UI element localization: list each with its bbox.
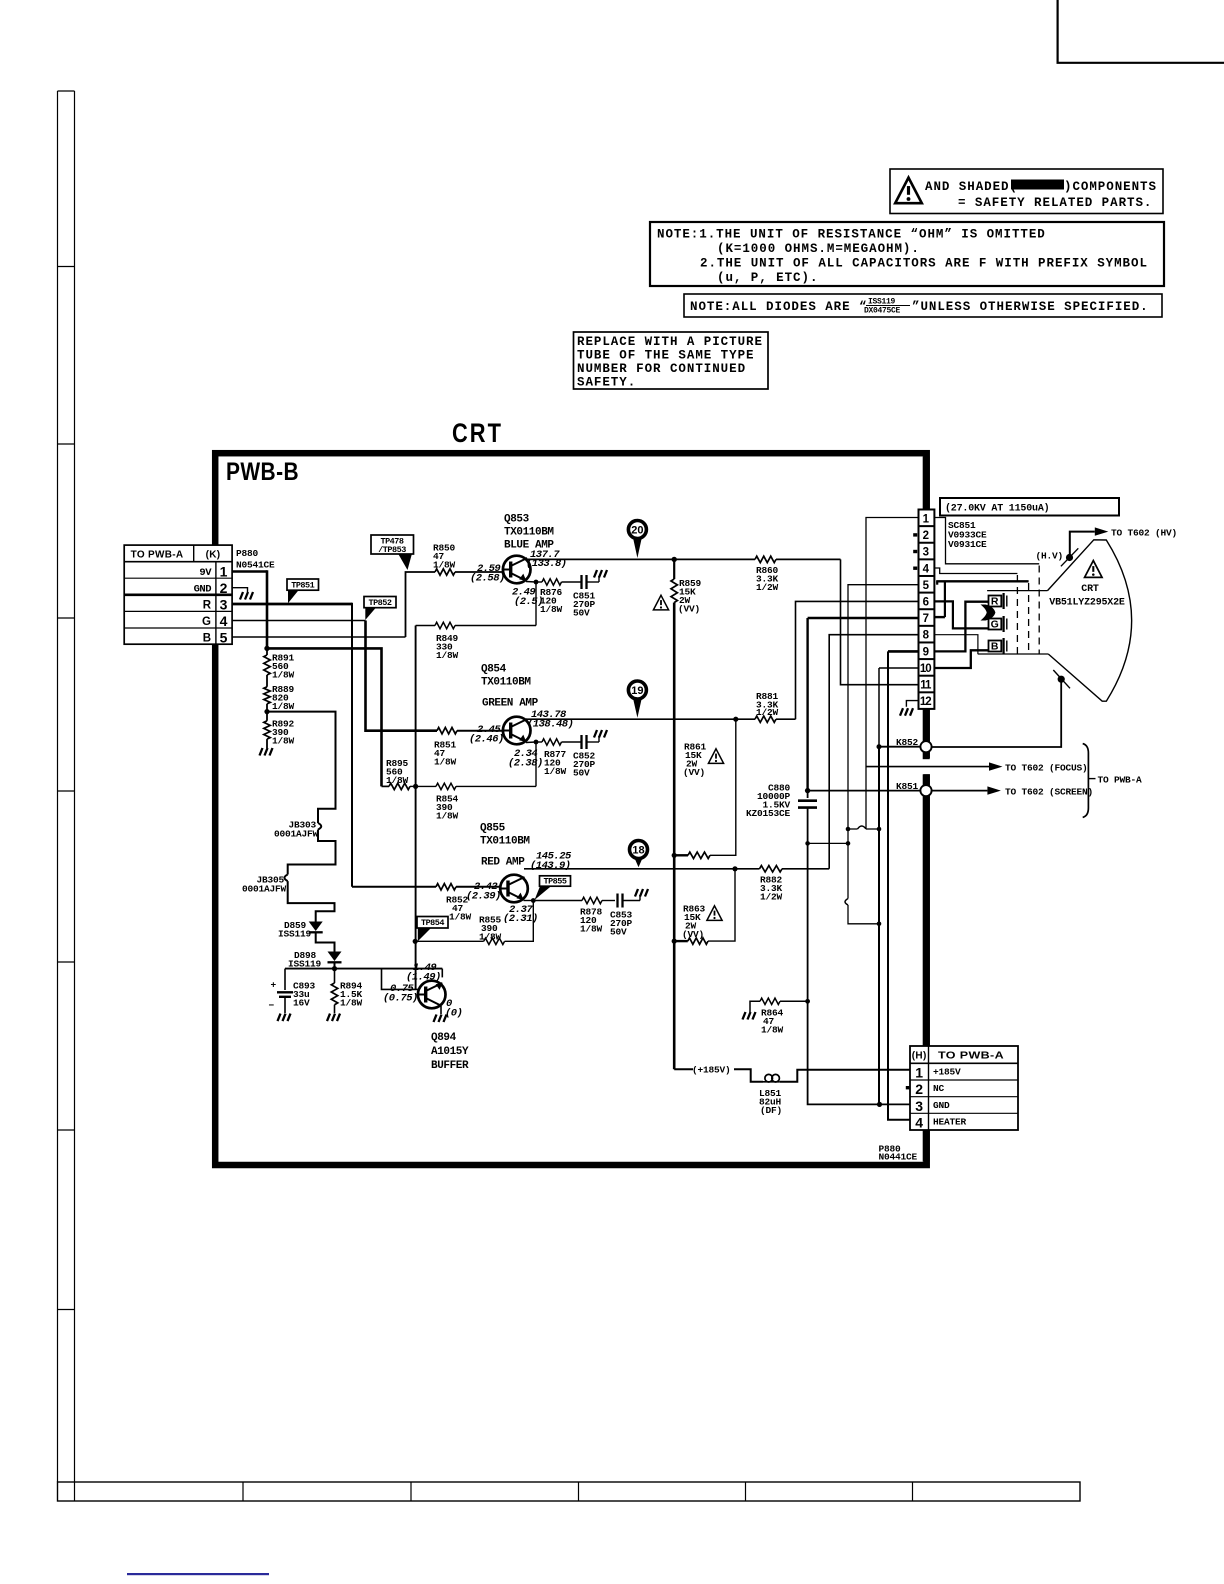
wire pin5/pin7 cathode rail [936,581,938,584]
svg-text:GREEN AMP: GREEN AMP [482,698,539,710]
svg-text:B: B [991,641,999,653]
resistor R889 [266,675,268,687]
svg-text:(2.31): (2.31) [503,913,538,925]
resistor R894 [334,969,336,983]
svg-text:5: 5 [220,630,228,646]
resistor R863 [708,869,735,941]
svg-text:CRT: CRT [452,418,503,448]
ground C853 [635,889,648,897]
wire 9V branch to R895 [267,648,382,786]
border bar to bottom corner [923,796,930,1046]
svg-text:(VV): (VV) [682,929,704,940]
test point TP854 flag [418,928,431,941]
svg-text:1/8W: 1/8W [272,670,295,681]
wire B gun [934,650,988,668]
svg-text:PWB-B: PWB-B [226,458,299,486]
node TP854 junction [413,939,418,944]
grid electrode symbol [981,605,996,621]
svg-text:(27.0KV AT 1150uA): (27.0KV AT 1150uA) [945,503,1049,515]
svg-text:R: R [203,600,212,612]
svg-text:+: + [270,980,276,991]
svg-text:1/8W: 1/8W [272,701,295,712]
svg-text:50V: 50V [573,608,590,619]
wire Q894 base feed [382,969,418,990]
transistor Q853 [503,556,531,584]
svg-text:TX0110BM: TX0110BM [481,677,531,689]
wire G gun [934,601,988,628]
wire pin5 socket [848,585,919,829]
resistor R878 [533,900,582,902]
wire Q894 collector [441,969,443,978]
svg-text:1/8W: 1/8W [386,775,409,786]
blue underline mark [127,1573,269,1575]
svg-text:2: 2 [220,580,228,596]
wire stair 2 [288,830,336,875]
svg-text:2.THE UNIT OF ALL CAPACITORS A: 2.THE UNIT OF ALL CAPACITORS ARE F WITH … [700,257,1148,271]
svg-text:Q855: Q855 [480,823,506,835]
PWB-B border bar below connector [923,709,930,742]
svg-text:(1.49): (1.49) [406,972,441,984]
inductor L851 [763,1081,780,1083]
CRT warning triangle [1085,561,1102,578]
svg-text:NOTE:ALL DIODES ARE “: NOTE:ALL DIODES ARE “ [690,300,867,314]
node Q853 emitter [526,581,536,584]
pointer 18 [634,857,643,868]
wire 9V pin1 [232,570,267,572]
svg-text:G: G [202,616,211,628]
svg-text:N0441CE: N0441CE [879,1152,918,1163]
node Q854 emitter [526,741,536,744]
svg-text:(H.V): (H.V) [1035,551,1063,562]
capacitor C880 [807,791,809,798]
svg-text:TO PWB-A: TO PWB-A [938,1051,1004,1062]
svg-text:9V: 9V [199,567,212,579]
svg-text:P880: P880 [236,548,259,559]
jumper JB303 [318,823,321,830]
wire Q854 emitter down [535,742,537,786]
node Q855 emitter [524,900,534,902]
gun box B [989,641,1002,652]
svg-text:(2.5): (2.5) [514,596,543,608]
svg-text:1: 1 [915,1065,923,1081]
svg-text:1/2W: 1/2W [760,892,783,903]
svg-text:TO T602 (FOCUS): TO T602 (FOCUS) [1005,763,1088,774]
resistor R864 [750,1001,760,1012]
wire B pin5 [232,636,405,638]
svg-text:B: B [203,633,211,645]
wire feedback vertical [415,626,417,990]
svg-text:11: 11 [920,680,932,692]
PWB-B border stub above connector [923,457,930,510]
svg-text:)COMPONENTS: )COMPONENTS [1064,180,1157,194]
svg-text:= SAFETY RELATED PARTS.: = SAFETY RELATED PARTS. [958,196,1152,210]
svg-text:(143.9): (143.9) [530,860,571,872]
wire pin8 red [829,635,918,869]
svg-text:1/8W: 1/8W [434,757,457,768]
resistor R860 [676,558,755,560]
svg-text:1/8W: 1/8W [479,932,502,943]
pointer 20 [633,537,642,558]
dashed grid lines [1016,575,1018,654]
wire pin4 grid [934,568,1017,574]
HV anode connection [1066,554,1073,561]
svg-text:1/8W: 1/8W [340,998,363,1009]
svg-text:(2.39): (2.39) [466,891,501,903]
resistor R850 [435,569,455,575]
jumper JB305 [284,875,287,882]
HV rating box [940,498,1119,516]
ground 9V divider [266,739,268,748]
resistor R892 [264,721,270,739]
svg-text:1: 1 [220,564,228,580]
node 9V junction [264,646,269,651]
svg-text:TUBE OF THE SAME TYPE: TUBE OF THE SAME TYPE [577,349,754,363]
svg-text:1/8W: 1/8W [436,811,459,822]
wire L851 to connector [780,1070,910,1082]
svg-text:NC: NC [933,1083,945,1094]
svg-text:TO PWB-A: TO PWB-A [131,550,184,561]
svg-text:NOTE:1.THE UNIT OF RESISTANCE: NOTE:1.THE UNIT OF RESISTANCE “OHM” IS O… [657,228,1046,242]
wire pin11 blue [841,559,919,684]
node collector junction [672,557,677,562]
svg-text:(2.38): (2.38) [508,758,543,770]
pin12 ground [906,701,918,707]
svg-text:VB51LYZ295X2E: VB51LYZ295X2E [1049,598,1125,609]
wire GND return [808,1001,910,1104]
gun box R [989,596,1002,607]
svg-text:(+185V): (+185V) [692,1065,731,1076]
CRT envelope [1048,540,1132,701]
transistor Q894 A1015Y [418,981,446,1009]
capacitor C893 [284,969,286,990]
svg-text:1/8W: 1/8W [433,560,456,571]
svg-text:TP854: TP854 [421,918,444,928]
resistor R882 [732,866,737,871]
wire +185V corner [674,1068,693,1070]
svg-text:HEATER: HEATER [933,1117,967,1128]
wire R pin3 [232,603,352,606]
svg-text:3: 3 [915,1098,923,1114]
svg-text:3: 3 [220,597,228,613]
svg-text:6: 6 [923,597,929,609]
svg-text:1/2W: 1/2W [756,582,779,593]
wire pin8 stub [934,635,978,654]
svg-text:7: 7 [923,613,929,625]
svg-text:TP852: TP852 [368,598,391,608]
svg-text:REPLACE WITH A PICTURE: REPLACE WITH A PICTURE [577,335,763,349]
svg-text:50V: 50V [610,927,627,938]
wire R vertical [351,603,353,887]
svg-text:−: − [268,1000,274,1011]
svg-text:1/8W: 1/8W [436,650,459,661]
wire G pin4 [232,620,365,622]
PWB-B board outline [215,453,927,1165]
svg-text:GND: GND [194,584,212,596]
svg-text:(2.46): (2.46) [469,734,504,746]
socket outline lines [987,590,1047,592]
svg-text:TO T602 (SCREEN): TO T602 (SCREEN) [1005,787,1093,798]
wire pin6 green [796,601,919,719]
wire Q855 emitter loop [505,901,534,942]
svg-text:TX0110BM: TX0110BM [480,836,530,848]
wire K851 screen out [932,790,988,792]
svg-text:19: 19 [631,685,643,697]
resistor R854 [416,785,436,787]
wire Q855 collector [524,868,735,870]
diode D898 [328,952,342,962]
svg-text:+185V: +185V [933,1067,961,1078]
transistor Q854 [503,717,531,745]
screen grid connection [1058,676,1065,683]
svg-text:Q894: Q894 [431,1032,457,1044]
svg-text:16V: 16V [293,998,310,1009]
wire stair 4 [316,933,335,952]
svg-text:AND SHADED(: AND SHADED( [925,180,1018,194]
wire G vertical elbow [366,621,438,731]
svg-text:1/8W: 1/8W [544,766,567,777]
svg-text:(VV): (VV) [678,604,700,615]
wire B vertical up [406,572,436,637]
resistor R855 [484,938,505,944]
eyelet K851 [923,774,930,785]
svg-text:DX0475CE: DX0475CE [864,307,901,316]
resistor R876 [536,581,542,583]
svg-text:R: R [991,596,999,608]
svg-text:4: 4 [220,613,228,629]
resistor R895 [389,783,410,789]
svg-text:TP851: TP851 [291,580,314,590]
svg-text:1/8W: 1/8W [540,604,563,615]
svg-text:1/8W: 1/8W [761,1025,784,1036]
svg-text:/TP853: /TP853 [378,545,406,555]
svg-text:0001AJFW: 0001AJFW [274,829,319,840]
diode D859 [309,922,323,932]
node divider junction [266,704,268,721]
svg-text:50V: 50V [573,768,590,779]
svg-text:(0): (0) [445,1008,462,1020]
node grid row [846,827,851,832]
svg-text:GND: GND [933,1100,950,1111]
connector SC851 pin column [919,510,935,709]
svg-text:Q854: Q854 [481,664,507,676]
svg-text:KZ0153CE: KZ0153CE [746,808,791,819]
svg-text:(2.58): (2.58) [470,573,505,585]
test point TP851 flag [288,590,299,603]
svg-text:TO PWB-A: TO PWB-A [1098,774,1143,785]
svg-text:(H): (H) [912,1051,927,1062]
wire Q854 collector [527,718,736,720]
test point TP478/TP853 flag [398,554,412,571]
eyelet K852 [920,741,931,752]
page corner frame top-right [1058,0,1224,63]
svg-text:(138.48): (138.48) [527,719,573,731]
svg-text:(K=1000 OHMS.M=MEGAOHM).: (K=1000 OHMS.M=MEGAOHM). [717,242,920,256]
connector P880 table (H) TO PWB-A [910,1046,1018,1130]
svg-text:2: 2 [915,1081,923,1097]
svg-text:(0.75): (0.75) [383,993,418,1005]
svg-text:N0541CE: N0541CE [236,560,275,571]
svg-text:A1015Y: A1015Y [431,1046,469,1058]
wire pin10 [879,667,919,669]
wire GND pin2 to ground [232,588,247,592]
pointer 19 [633,697,642,718]
wire focus line [866,766,989,768]
svg-text:1/8W: 1/8W [580,924,603,935]
svg-text:ISS119: ISS119 [278,929,312,940]
connector P880 table TO PWB-A (K) [124,545,232,644]
svg-text:(DF): (DF) [760,1105,782,1116]
svg-text:BUFFER: BUFFER [431,1060,469,1072]
node R895/R854 junction [413,784,418,789]
svg-text:18: 18 [632,844,644,856]
wire jumper stair [267,712,336,823]
resistor R877 [536,741,542,743]
ground C852 [594,730,607,738]
svg-text:G: G [991,619,999,631]
resistor R861 [710,719,736,855]
svg-text:Q853: Q853 [504,514,530,526]
svg-text:1/2W: 1/2W [756,707,779,718]
test point TP852 flag [365,608,376,620]
resistor R849 [416,625,435,627]
transistor Q855 [500,875,528,903]
svg-text:(K): (K) [206,550,221,561]
svg-text:V0931CE: V0931CE [948,539,987,550]
wire pin1 grid [934,518,1039,564]
wire Q853 collector [527,558,675,560]
resistor R859 [673,559,675,579]
ground C851 [594,570,607,578]
safety warning box [890,169,1163,214]
wire pin7 focus rail [808,617,919,620]
wire Q853 emitter down [535,582,537,626]
wire pin1 socket [866,518,919,830]
jumper hook [847,829,849,899]
svg-text:SAFETY.: SAFETY. [577,376,636,390]
svg-text:1/8W: 1/8W [272,736,295,747]
ground R894 [327,1014,340,1022]
wire K852 to tube [932,679,1062,747]
node K851/C880 [805,788,810,793]
svg-text:(VV): (VV) [683,767,705,778]
left margin fold column [57,91,59,1482]
test point TP855 flag [535,886,552,900]
wire 185V rail [673,603,676,1070]
svg-text:RED AMP: RED AMP [481,857,525,869]
svg-text:20: 20 [631,524,643,536]
svg-text:12: 12 [920,696,931,708]
resistor R852 [352,886,436,888]
resistor R891 [266,648,268,655]
capacitor C852 [580,735,582,749]
wire C880 branch [805,841,810,846]
bracket TO PWB-A [1083,744,1089,818]
svg-text:TO T602 (HV): TO T602 (HV) [1111,528,1177,539]
svg-text:(u, P, ETC).: (u, P, ETC). [717,271,818,285]
capacitor C853 [616,894,618,908]
svg-text:3: 3 [923,547,929,559]
svg-text:CRT: CRT [1081,584,1099,595]
svg-text:0001AJFW: 0001AJFW [242,884,287,895]
wire stair 3 [288,881,335,921]
svg-text:TP855: TP855 [543,876,566,886]
svg-text:2: 2 [923,530,929,542]
svg-text:1/8W: 1/8W [449,912,472,923]
ground pin2 [240,592,253,600]
ground C893 [278,1014,291,1022]
capacitor C851 [580,575,582,589]
note box 1 [650,222,1164,286]
svg-text:10: 10 [920,663,931,675]
note box 2 diodes [684,294,1162,317]
wire pin9 heater [888,650,919,653]
wire R gun [934,602,988,652]
picture tube note box [574,332,769,389]
node D898 cathode row [334,963,336,969]
bottom revision strip [58,1482,1081,1501]
svg-text:NUMBER FOR CONTINUED: NUMBER FOR CONTINUED [577,362,746,376]
svg-text:4: 4 [915,1115,923,1131]
svg-text:”UNLESS OTHERWISE SPECIFIED.: ”UNLESS OTHERWISE SPECIFIED. [912,300,1149,314]
resistor R851 [437,728,457,734]
svg-text:9: 9 [923,646,929,658]
gun box G [989,619,1002,630]
pins 2,3,4 stubs [913,533,917,536]
resistor R881 [733,717,738,722]
wire Q894 emitter to ground [440,1006,442,1014]
svg-text:TX0110BM: TX0110BM [504,527,554,539]
